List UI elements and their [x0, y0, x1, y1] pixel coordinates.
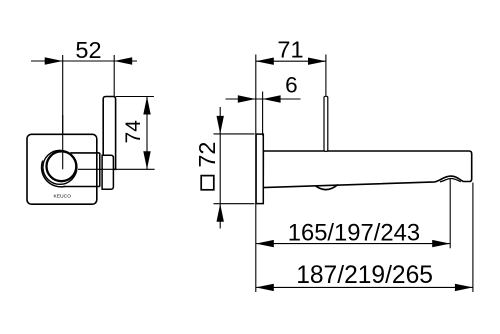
aerator dome on underside — [316, 185, 338, 190]
dim 74 dimension line — [146, 97, 148, 170]
svg-text:187/219/265: 187/219/265 — [296, 262, 433, 289]
stem axis extension line — [325, 55, 327, 96]
dim 71 dimension line — [256, 60, 326, 62]
cartridge stem — [324, 96, 328, 151]
svg-text:6: 6 — [285, 73, 298, 98]
spout outlet wave inner line — [440, 179, 461, 182]
spout body outline — [263, 151, 472, 188]
spout tip extension line — [472, 183, 474, 293]
dim 72 bottom extension line — [214, 203, 255, 205]
svg-text:KEUCO: KEUCO — [54, 194, 72, 200]
svg-text:74: 74 — [122, 120, 145, 144]
extension line wall face (52 right) — [113, 55, 115, 98]
dim 72 dimension line — [219, 107, 221, 229]
dim 72 top extension line — [214, 133, 255, 135]
svg-text:165/197/243: 165/197/243 — [288, 219, 420, 246]
dim 6 right arrowhead — [263, 95, 281, 102]
dim 74 bottom arrowhead — [143, 151, 150, 169]
svg-text:52: 52 — [75, 37, 101, 63]
wall plate side view (rosette slab) — [103, 97, 115, 170]
dim 165 right arrowhead — [432, 240, 450, 247]
knob skirt arc — [42, 161, 65, 187]
extension line from knob axis (52 left) — [62, 55, 64, 169]
svg-text:72: 72 — [194, 142, 220, 168]
dim 165/197/243 dimension line — [256, 243, 450, 245]
dim 52 left arrowhead — [45, 57, 63, 64]
handle cylinder bottom tangent — [64, 186, 100, 188]
centre line through knob axis — [62, 115, 64, 169]
dim 71 left arrowhead — [256, 58, 274, 65]
handle cylinder end line — [99, 153, 101, 187]
dim 74 top arrowhead — [143, 97, 150, 115]
dim 187 left arrowhead — [256, 284, 274, 291]
escutcheon plate front view — [27, 134, 97, 204]
svg-text:71: 71 — [277, 36, 303, 62]
square symbol of dim 72 — [201, 176, 214, 190]
handle neck box — [102, 155, 113, 189]
dim 187/219/265 dimension line — [256, 286, 473, 288]
dim 6 left arrowhead — [238, 95, 256, 102]
knob face circle — [47, 151, 77, 181]
dim 187 right arrowhead — [455, 284, 473, 291]
dim 165 left arrowhead — [256, 240, 274, 247]
dim 52 dimension line — [31, 60, 137, 62]
wall flange rect — [256, 134, 263, 204]
dim 74 top extension line — [116, 96, 154, 98]
dim 6 right extension line — [262, 92, 264, 136]
outlet axis extension line — [449, 178, 451, 248]
dim 72 bottom arrowhead — [217, 204, 224, 222]
dim 72 top arrowhead — [217, 116, 224, 134]
handle cylinder top tangent — [70, 152, 100, 154]
dim 71 right arrowhead — [308, 58, 326, 65]
knob outer rim circle — [43, 150, 77, 184]
dim 52 right arrowhead — [114, 57, 132, 64]
wall face extension line — [255, 55, 257, 293]
dim 6 dimension line — [226, 98, 301, 100]
